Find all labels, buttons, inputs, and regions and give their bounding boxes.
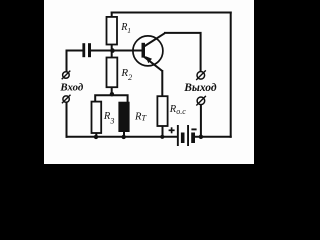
wire: input upper terminal up and right to capacitor [67, 51, 83, 72]
battery GB1 [177, 125, 195, 146]
wire: RT bottom to ground rail [123, 132, 125, 137]
wire: emitter down to Roc [161, 70, 163, 97]
svg-text:RТ: RТ [134, 111, 147, 122]
node: R3 bottom junction [94, 135, 98, 139]
wire: capacitor right plate to transistor base [91, 50, 142, 52]
svg-text:Выход: Выход [183, 82, 217, 94]
terminal: output lower [196, 96, 206, 106]
resistor Roc [157, 96, 167, 126]
wire: R1 top stub to negative rail [111, 12, 113, 18]
node: output lower junction [199, 135, 203, 139]
wire: R1 bottom through base node to R2 top [111, 45, 113, 59]
terminal: input lower [62, 95, 71, 104]
wire: output lower terminal down to battery minus rail [200, 104, 202, 136]
resistor R2 [107, 58, 118, 88]
terminal: input upper [62, 71, 71, 80]
label Vhod [59, 81, 83, 93]
label RT [134, 111, 147, 122]
label battery plus [169, 127, 175, 133]
label R3 [103, 111, 114, 125]
label R1 [120, 22, 131, 35]
thermistor RT [118, 102, 129, 132]
svg-text:Вход: Вход [59, 81, 83, 93]
label R2 [120, 67, 132, 82]
wire: right rail down to battery minus side [230, 12, 232, 138]
resistor R1 [107, 17, 118, 45]
wire: bottom ground rail battery plus side [66, 136, 178, 138]
label Vyhod [183, 82, 217, 94]
resistor R3 [92, 102, 102, 133]
node: RT bottom junction [122, 135, 126, 139]
node: R2 bottom junction [110, 92, 114, 96]
wire: collector to output upper terminal [164, 33, 201, 72]
terminal: output upper [196, 70, 206, 80]
wire: top negative rail [111, 12, 232, 14]
wire: Roc bottom to ground rail [162, 126, 164, 137]
node: Roc bottom junction [160, 135, 164, 139]
transistor VT1 [133, 33, 165, 71]
wire: battery minus to right rail [195, 136, 232, 138]
node: base junction [110, 48, 115, 53]
wire: R2 bottom to divider bar [111, 87, 113, 95]
label Roc [169, 104, 186, 116]
wire: input lower terminal down to ground rail [66, 102, 68, 138]
wire: R3 bottom to ground rail [95, 133, 97, 137]
capacitor C1 [82, 43, 91, 57]
label battery minus [191, 128, 196, 130]
wire: divider bar from R3 top to RT top [95, 95, 127, 102]
